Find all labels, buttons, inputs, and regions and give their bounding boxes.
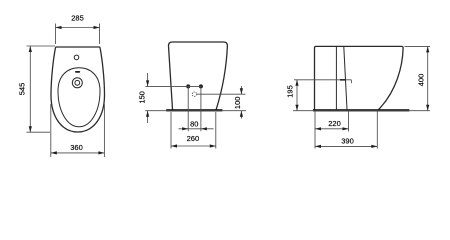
svg-text:360: 360 — [70, 143, 83, 152]
water inlet mark — [340, 79, 346, 81]
dimension 285 line — [56, 27, 100, 29]
dimension 285 arrows — [56, 26, 62, 29]
dimension 285 extension lines — [55, 24, 57, 45]
dimension 390 line — [315, 145, 377, 147]
water inlet centerline side view — [294, 79, 351, 81]
bidet top view outline — [51, 47, 105, 132]
side view back wall line A — [335, 47, 337, 110]
side view back wall line B — [344, 47, 347, 110]
dimension 545 arrows — [29, 46, 32, 52]
fixing dot right — [199, 84, 203, 88]
dimension 80 line with outside arrows — [179, 128, 214, 130]
dimension 360 line — [51, 152, 105, 154]
fixing dot left — [186, 84, 190, 88]
water inlet horizontal centerline — [197, 93, 246, 95]
dimension 545 line — [29, 46, 31, 132]
dimension 360 arrows — [51, 151, 57, 154]
dimension 220 extension lines — [314, 111, 316, 148]
fixing dot right extension — [200, 86, 202, 131]
svg-text:220: 220 — [328, 119, 341, 128]
dimension 260 arrows — [171, 144, 177, 147]
side view base plinth — [313, 109, 409, 111]
dimension 220 line — [315, 128, 349, 130]
inner basin oval — [58, 68, 100, 127]
inlet tick — [350, 80, 352, 83]
svg-text:100: 100 — [233, 97, 242, 110]
dimension 390 arrows — [315, 145, 321, 148]
drain outer ring — [72, 78, 82, 88]
svg-text:390: 390 — [341, 137, 354, 146]
svg-text:80: 80 — [190, 119, 198, 128]
bidet side view outline — [315, 46, 404, 109]
dimension 400 top extension — [405, 45, 431, 47]
dimension 360 extension lines — [50, 104, 52, 157]
tap hole — [74, 55, 79, 60]
overflow slot — [75, 71, 80, 73]
floor line front view — [145, 110, 246, 112]
fixing dot left extension — [187, 86, 189, 131]
dimension 195 line — [296, 80, 298, 111]
dimension 400 line — [427, 46, 429, 110]
dimension 545 extension lines — [27, 45, 56, 47]
dimension 100 arrows — [240, 88, 243, 94]
svg-text:260: 260 — [187, 134, 200, 143]
fixing dots line — [146, 85, 201, 87]
svg-text:150: 150 — [137, 91, 146, 104]
dimension 150 line — [147, 73, 149, 86]
dimension 100 line — [240, 86, 242, 94]
floor line side view — [293, 110, 430, 112]
drain inner hole — [75, 80, 80, 85]
dimension 390 extension line — [376, 111, 378, 148]
svg-text:195: 195 — [285, 85, 294, 98]
dimension 260 line — [171, 145, 216, 147]
dimension 150 arrows — [146, 80, 149, 86]
water inlet circle — [192, 92, 196, 96]
bidet front view outline — [168, 42, 227, 109]
svg-text:545: 545 — [18, 83, 27, 96]
svg-text:285: 285 — [71, 14, 84, 23]
front view base plinth — [166, 109, 222, 111]
dimension 220 arrows — [315, 127, 321, 130]
svg-text:400: 400 — [417, 74, 426, 87]
dimension 260 extension lines — [170, 112, 172, 149]
dimension 400 arrows — [426, 46, 429, 52]
dimension 195 arrows — [295, 80, 298, 86]
